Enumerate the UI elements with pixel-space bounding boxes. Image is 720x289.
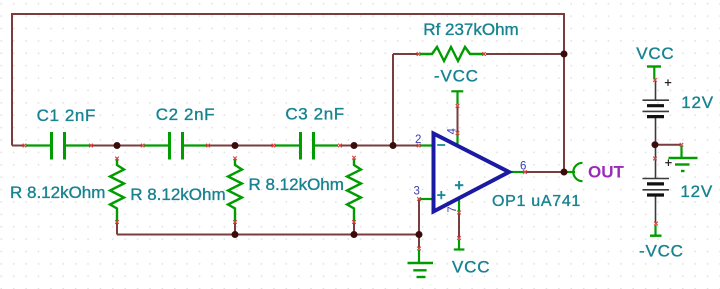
- svg-text:C3 2nF: C3 2nF: [285, 105, 344, 124]
- svg-text:-VCC: -VCC: [639, 242, 684, 261]
- svg-text:2: 2: [415, 134, 421, 146]
- svg-text:R 8.12kOhm: R 8.12kOhm: [130, 185, 225, 204]
- svg-text:R 8.12kOhm: R 8.12kOhm: [249, 175, 344, 194]
- svg-text:VCC: VCC: [636, 44, 674, 63]
- svg-text:C1 2nF: C1 2nF: [37, 106, 96, 125]
- svg-text:12V: 12V: [681, 93, 714, 112]
- svg-text:7: 7: [447, 206, 459, 212]
- svg-text:R 8.12kOhm: R 8.12kOhm: [10, 183, 105, 202]
- svg-text:VCC: VCC: [452, 258, 490, 277]
- svg-text:OUT: OUT: [588, 162, 625, 181]
- svg-text:6: 6: [520, 160, 526, 172]
- svg-text:12V: 12V: [680, 182, 713, 201]
- svg-text:Rf 237kOhm: Rf 237kOhm: [423, 20, 518, 39]
- svg-text:OP1 uA741: OP1 uA741: [492, 193, 581, 210]
- svg-text:4: 4: [447, 128, 459, 135]
- svg-text:-VCC: -VCC: [434, 67, 479, 86]
- svg-text:3: 3: [414, 185, 420, 197]
- svg-text:C2 2nF: C2 2nF: [156, 105, 215, 124]
